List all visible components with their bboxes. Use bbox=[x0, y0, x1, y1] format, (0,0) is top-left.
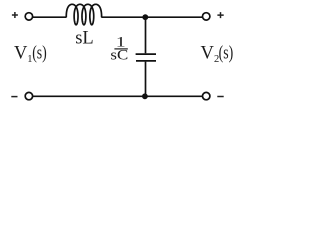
plus sign top-left bbox=[12, 12, 18, 18]
terminal circle top-right bbox=[203, 13, 210, 20]
minus sign bottom-right bbox=[217, 96, 223, 98]
svg-text:V: V bbox=[201, 43, 215, 63]
terminal circle bottom-left bbox=[25, 92, 32, 99]
svg-text:sC: sC bbox=[110, 48, 128, 64]
terminal circle bottom-right bbox=[203, 92, 210, 99]
capacitor C bottom plate bbox=[136, 60, 156, 62]
minus sign bottom-left bbox=[11, 96, 17, 98]
svg-text:sL: sL bbox=[75, 29, 94, 49]
capacitor C top plate bbox=[136, 53, 156, 55]
junction node bottom bbox=[142, 93, 148, 99]
wire bottom rail bbox=[33, 95, 203, 97]
fraction bar bbox=[114, 48, 127, 50]
inductor sL coil bbox=[66, 4, 101, 25]
wire top-right (inductor to output terminal) bbox=[101, 16, 202, 18]
wire capacitor bottom stub bbox=[145, 62, 147, 97]
svg-text:(s): (s) bbox=[32, 43, 47, 63]
wire capacitor top stub bbox=[145, 17, 147, 53]
wire top-left (terminal to inductor) bbox=[33, 16, 67, 18]
junction node top bbox=[142, 14, 148, 20]
svg-text:V: V bbox=[14, 43, 28, 63]
terminal circle top-left bbox=[25, 13, 32, 20]
plus sign top-right bbox=[217, 12, 223, 18]
svg-text:(s): (s) bbox=[219, 43, 234, 63]
label V2(s) bbox=[201, 43, 234, 65]
label V1(s) bbox=[14, 43, 47, 65]
